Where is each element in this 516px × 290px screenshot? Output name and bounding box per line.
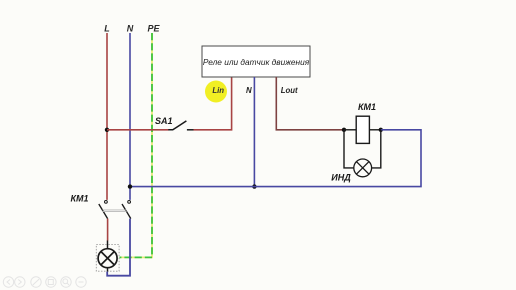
mechanical linkage of KM1 contacts [103,210,127,212]
switch SA1 fixed contact [187,129,194,131]
wire SA1 feed (red) [107,129,169,131]
contact KM1.2 terminal circle [128,201,131,204]
wire N from box to bus (blue) [253,77,255,187]
wire PE vertical+horizontal (green/yellow earth, to lamp enclosure) [120,33,153,257]
decorative: faint viewer toolbar icons [3,277,86,287]
wire L vertical (phase) [106,33,108,200]
svg-text:Реле или датчик движения: Реле или датчик движения [203,57,310,67]
wire coil return to neutral bus (blue) [130,130,421,187]
switch SA1 blade [168,121,186,130]
svg-text:N: N [127,24,134,34]
terminal Lin (yellow highlight) [205,81,227,103]
lamp IND (indicator) [354,159,372,177]
contact KM1.1 blade [99,204,108,219]
wire lamp lead bottom (black) [107,268,109,272]
wire Lout to contactor coil (dark red) [276,77,344,130]
svg-text:Lin: Lin [212,86,224,95]
svg-text:Lout: Lout [281,86,298,95]
svg-text:КМ1: КМ1 [70,194,88,204]
junction N terminal / neutral bus [252,184,256,188]
wire indicator branch left [344,130,354,168]
svg-text:ИНД: ИНД [331,173,351,183]
wire SA1 to Lin terminal (red) [194,77,232,130]
box U1: relay or motion sensor [202,46,310,77]
svg-text:КМ1: КМ1 [358,102,376,112]
coil KM1 [356,116,369,143]
svg-text:SA1: SA1 [155,116,173,126]
svg-text:N: N [246,86,252,95]
junction neutral bus / N vertical [128,184,132,188]
svg-text:PE: PE [147,24,160,34]
wire lamp return to contact KM1.2 (blue) [107,219,130,276]
wire coil right stub [369,129,380,131]
junction coil left [342,128,346,132]
junction coil right [379,128,383,132]
wire indicator branch right [372,130,381,168]
wire contact to lamp (red) [107,219,109,241]
contact KM1.1 terminal circle [105,201,108,204]
junction L / SA1 branch [105,128,109,132]
wire N vertical (neutral) [129,33,131,200]
lamp EL1 (load) [98,249,117,268]
contact KM1.2 blade [122,204,131,219]
wire lamp lead top (black) [107,241,109,250]
wire coil left stub [344,129,356,131]
lamp enclosure (dashed, earthed) [96,245,119,272]
svg-text:L: L [104,24,110,34]
